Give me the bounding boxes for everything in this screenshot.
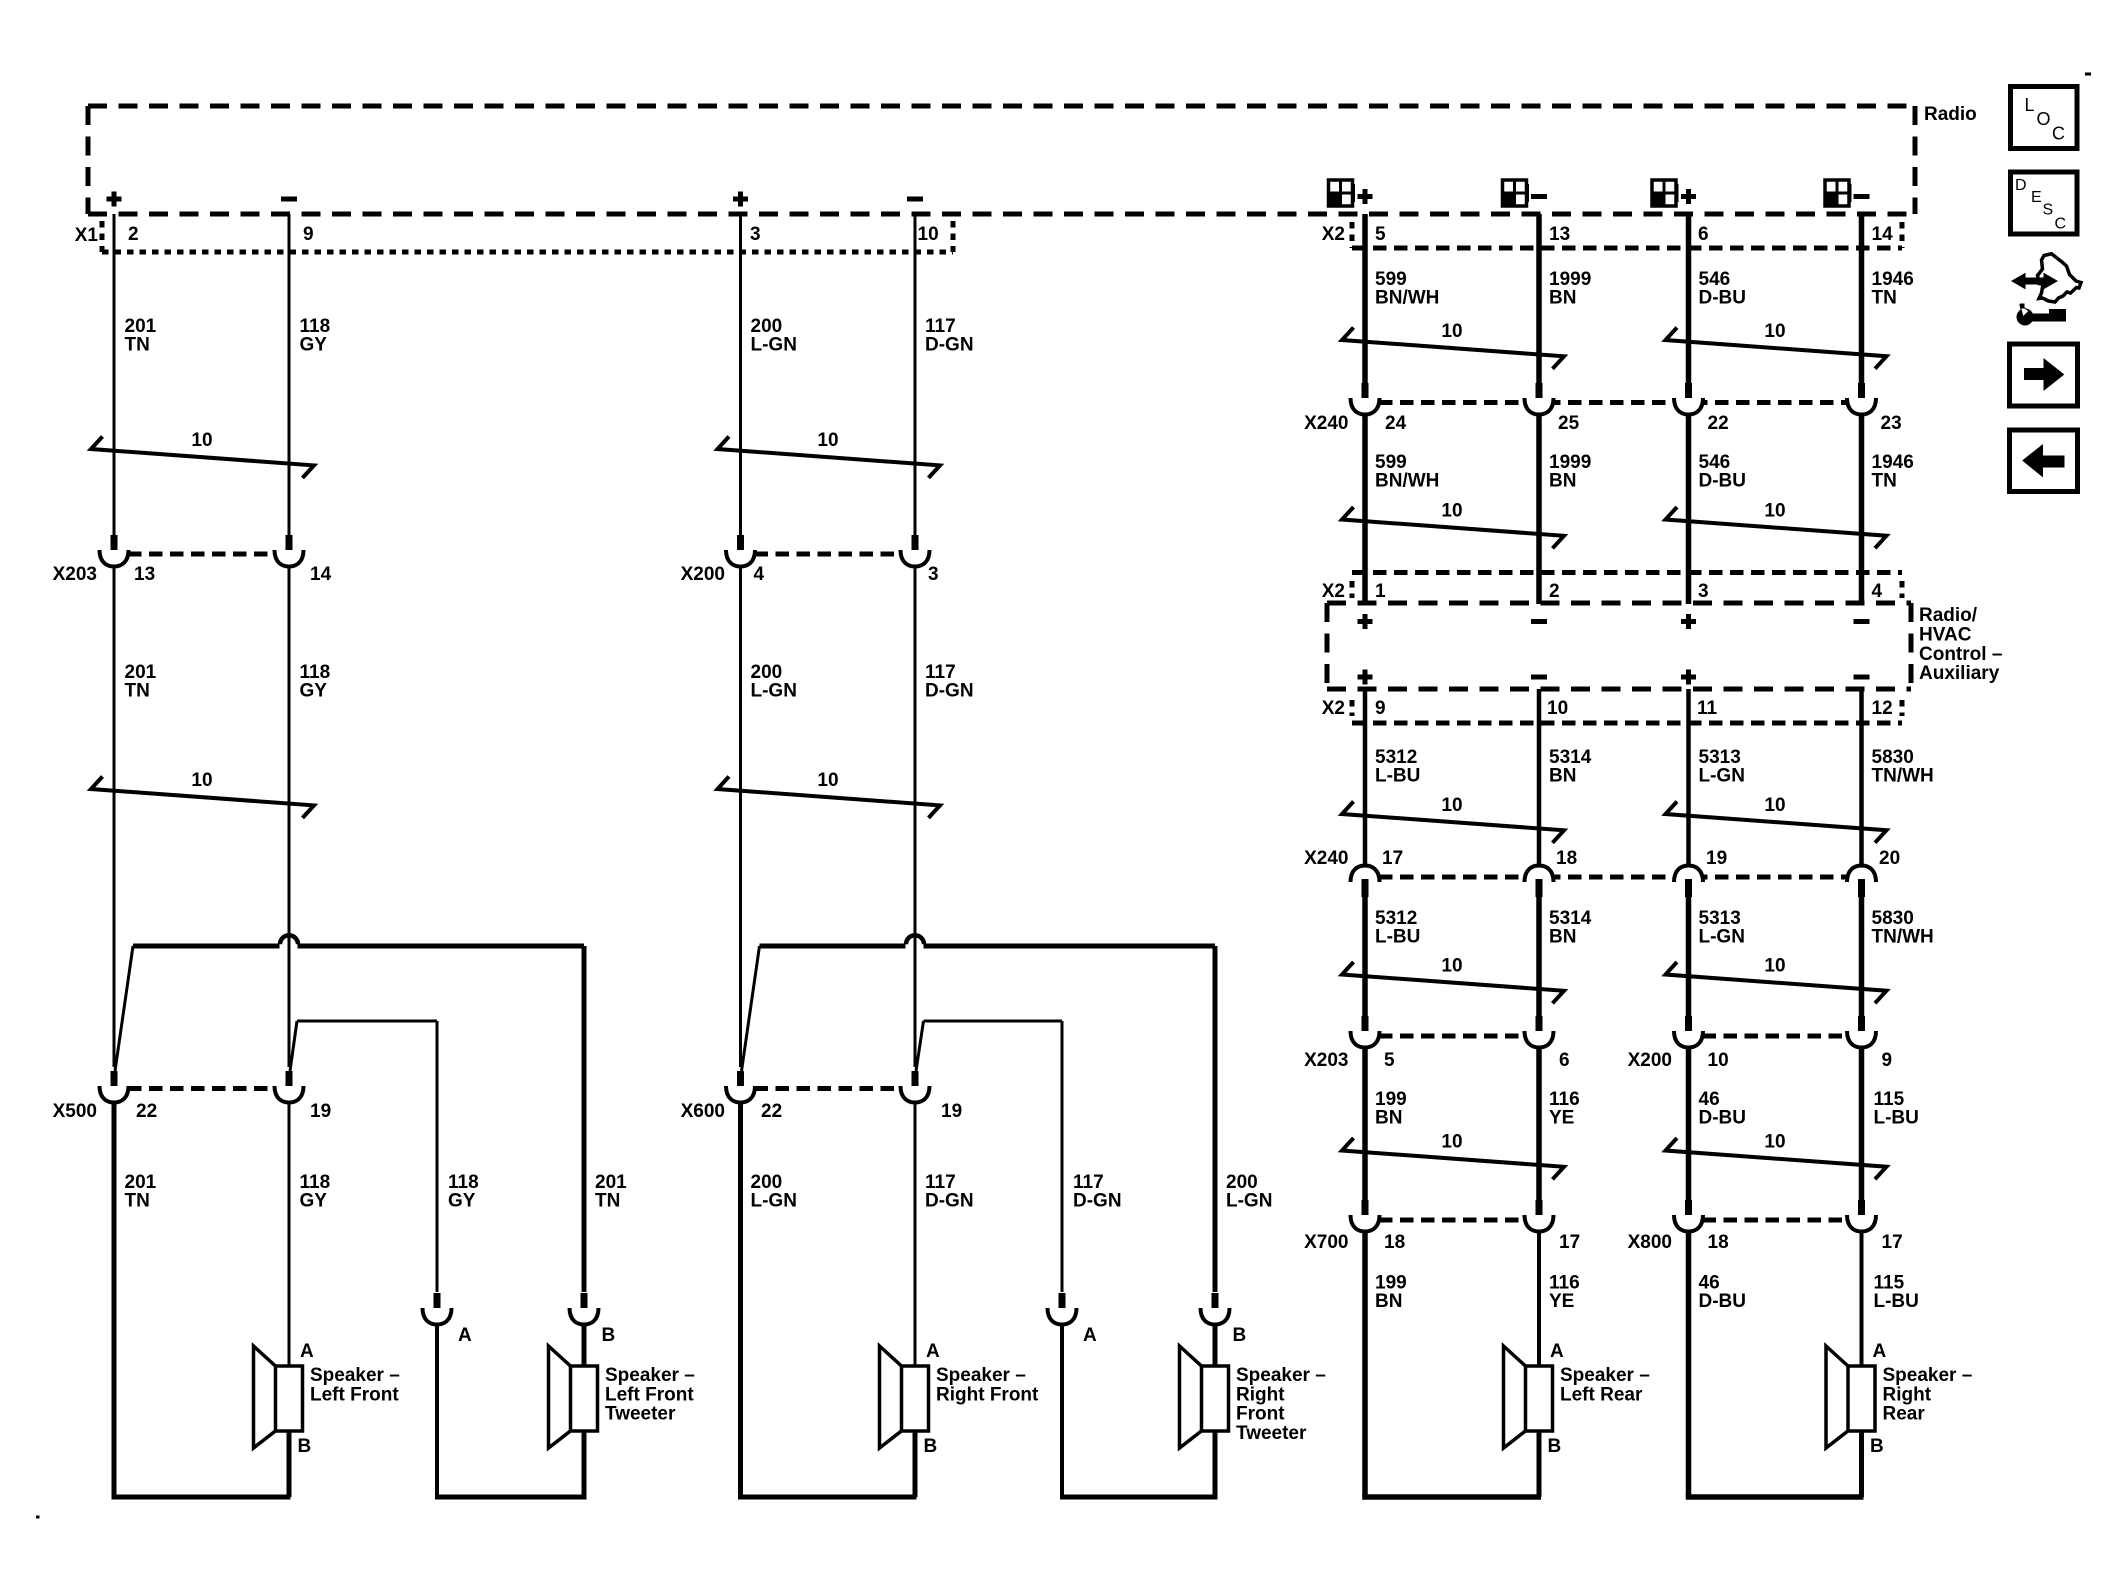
svg-text:A: A (926, 1341, 940, 1362)
svg-text:A: A (1083, 1325, 1097, 1346)
svg-text:Speaker –: Speaker – (310, 1365, 400, 1386)
svg-text:A: A (1550, 1341, 1564, 1362)
svg-text:Front: Front (1236, 1404, 1285, 1425)
connector X203 pin 13 clip (111, 535, 118, 554)
svg-text:Speaker –: Speaker – (605, 1365, 695, 1386)
twisted pair symbol right front lower (718, 777, 941, 818)
svg-text:X240: X240 (1304, 413, 1348, 434)
connector X600 pin 19 clip (912, 1071, 919, 1090)
svg-text:10: 10 (1764, 956, 1785, 977)
svg-text:18: 18 (1556, 848, 1577, 869)
svg-text:Speaker –: Speaker – (1560, 1365, 1650, 1386)
polarity - left rear (1531, 194, 1547, 199)
svg-text:L-BU: L-BU (1375, 927, 1420, 948)
svg-text:A: A (1873, 1341, 1887, 1362)
wire hop over 118 GY (280, 935, 298, 944)
svg-text:TN: TN (125, 681, 150, 702)
svg-text:B: B (924, 1436, 938, 1457)
twisted pair symbol aux left pair 2 (1342, 962, 1564, 1003)
svg-text:YE: YE (1549, 1291, 1574, 1312)
wire 46 D-BU segment 1 (1686, 1047, 1692, 1200)
speaker left rear symbol (1504, 1346, 1527, 1448)
svg-text:A: A (300, 1341, 314, 1362)
right tweeter wire A lower (1060, 1323, 1064, 1497)
rear speaker + symbol square (1652, 180, 1676, 206)
wire 199 BN segment 1 (1362, 1047, 1368, 1200)
polarity + left rear (1358, 189, 1373, 204)
connector X500 pin 22 clip (111, 1071, 118, 1090)
svg-text:GY: GY (300, 335, 328, 356)
twisted pair symbol rear right pair (1666, 328, 1887, 369)
polarity - right front (907, 197, 923, 202)
return wire right front tweeter (1060, 1495, 1218, 1500)
wire branch corner down right tweeter A (1061, 1021, 1064, 1292)
svg-text:22: 22 (136, 1101, 157, 1122)
svg-text:Right: Right (1236, 1384, 1285, 1405)
wire 46 D-BU segment 2 (1686, 1230, 1692, 1497)
connector X600 link (755, 1086, 902, 1091)
wire hop over 117 D-GN (906, 935, 924, 944)
polarity - pin2 (1531, 619, 1547, 624)
svg-text:13: 13 (134, 564, 155, 585)
twisted pair symbol aux right pair 2 (1666, 962, 1887, 1003)
return wire right rear (1686, 1494, 1864, 1500)
polarity - pin12 (1854, 675, 1870, 680)
svg-text:Right: Right (1883, 1384, 1932, 1405)
svg-text:10: 10 (1441, 501, 1462, 522)
connector X200 pin 10 clip (1685, 1016, 1692, 1035)
connector X200 link (755, 552, 902, 557)
svg-text:Radio: Radio (1924, 104, 1977, 125)
speaker right front symbol (880, 1346, 903, 1448)
svg-text:5: 5 (1384, 1050, 1395, 1071)
svg-text:10: 10 (1764, 1132, 1785, 1153)
svg-text:18: 18 (1384, 1232, 1405, 1253)
wire 1946 TN segment 1 (1859, 214, 1865, 383)
splice leg to X500 pin 19 (290, 1021, 297, 1071)
twisted pair symbol rear left pair (1342, 328, 1564, 369)
connector X2 aux dotted outline (1352, 721, 1902, 726)
svg-text:TN: TN (125, 1191, 150, 1212)
wire branch to right tweeter B (760, 944, 906, 949)
svg-text:B: B (602, 1325, 616, 1346)
svg-text:B: B (1548, 1436, 1562, 1457)
svg-text:E: E (2031, 189, 2042, 206)
connector X700 pin 18 clip (1362, 1200, 1369, 1219)
svg-text:22: 22 (761, 1101, 782, 1122)
twisted pair symbol left front lower (91, 777, 314, 818)
svg-text:Speaker –: Speaker – (1236, 1365, 1326, 1386)
svg-text:10: 10 (1441, 956, 1462, 977)
svg-text:10: 10 (1708, 1050, 1729, 1071)
connector X240 pin 19 clip (1674, 866, 1703, 883)
wire 5830 TN/WH segment 2 (1859, 896, 1865, 1017)
left tweeter wire B lower (582, 1323, 587, 1366)
svg-text:HVAC: HVAC (1919, 624, 1972, 645)
connector X2 lower dotted outline (1352, 570, 1902, 575)
wire 200 L-GN lower segment (738, 1102, 743, 1497)
svg-text:BN: BN (1549, 927, 1576, 948)
svg-text:Left Front: Left Front (310, 1384, 399, 1405)
svg-text:TN/WH: TN/WH (1872, 927, 1934, 948)
svg-text:19: 19 (941, 1101, 962, 1122)
svg-text:D-BU: D-BU (1699, 471, 1747, 492)
svg-text:X500: X500 (53, 1101, 97, 1122)
svg-text:D-GN: D-GN (925, 1191, 974, 1212)
svg-text:BN: BN (1375, 1108, 1402, 1129)
svg-text:D-GN: D-GN (925, 681, 974, 702)
wire 201 TN lower segment (112, 1102, 117, 1497)
connector X500 link (128, 1086, 275, 1091)
connector X200 pin 4 clip (737, 535, 744, 554)
svg-text:D-GN: D-GN (925, 335, 974, 356)
svg-text:L-BU: L-BU (1375, 766, 1420, 787)
right tweeter terminal B clip (1212, 1293, 1219, 1312)
wire 115 L-BU segment 1 (1859, 1047, 1865, 1200)
wire 199 BN segment 2 (1362, 1230, 1368, 1497)
polarity + left front (107, 192, 122, 207)
connector X240 pin 22 clip (1685, 383, 1692, 402)
twisted pair symbol rear speakers right (1666, 1138, 1887, 1179)
wire 5314 BN segment 1 (1537, 689, 1542, 866)
svg-text:BN/WH: BN/WH (1375, 288, 1439, 309)
svg-text:TN: TN (595, 1191, 620, 1212)
Radio/HVAC Control Auxiliary dashed box (1327, 601, 1911, 606)
speaker left rear wire below (1537, 1431, 1542, 1497)
twisted pair symbol rear left pair 2 (1342, 507, 1564, 548)
connector X240 link lower (1379, 875, 1848, 880)
wire 118 GY mid segment (288, 566, 291, 1067)
twisted pair symbol aux right pair (1666, 802, 1887, 843)
svg-text:Tweeter: Tweeter (605, 1404, 676, 1425)
connector X240 link upper (1379, 400, 1848, 405)
svg-text:11: 11 (1697, 698, 1718, 719)
polarity - right rear (1854, 194, 1870, 199)
svg-text:10: 10 (191, 770, 212, 791)
svg-text:X240: X240 (1304, 848, 1348, 869)
svg-text:18: 18 (1708, 1232, 1729, 1253)
svg-text:C: C (2055, 216, 2067, 233)
wire 118 GY upper segment (288, 214, 291, 535)
stray mark top right (2085, 73, 2091, 76)
svg-text:17: 17 (1559, 1232, 1580, 1253)
svg-text:19: 19 (310, 1101, 331, 1122)
return wire left rear (1362, 1494, 1541, 1500)
svg-text:10: 10 (1764, 321, 1785, 342)
wire 546 D-BU segment 2 (1686, 414, 1692, 604)
svg-text:22: 22 (1708, 413, 1729, 434)
wire 546 D-BU segment 1 (1686, 214, 1692, 383)
svg-text:L-GN: L-GN (1699, 766, 1745, 787)
connector X203 pin 5 clip (1362, 1016, 1369, 1035)
svg-text:GY: GY (300, 681, 328, 702)
svg-text:12: 12 (1872, 698, 1893, 719)
svg-text:X200: X200 (1628, 1050, 1672, 1071)
svg-text:Rear: Rear (1883, 1404, 1926, 1425)
svg-text:2: 2 (128, 224, 139, 245)
connector X240 pin 17 clip (1351, 866, 1380, 883)
connector X800 pin 18 clip (1685, 1200, 1692, 1219)
svg-text:D-GN: D-GN (1073, 1191, 1122, 1212)
svg-text:Left Rear: Left Rear (1560, 1384, 1643, 1405)
wire 1999 BN segment 2 (1536, 414, 1542, 604)
connector X203 pin 6 clip (1536, 1016, 1543, 1035)
speaker right front wire below (913, 1431, 918, 1497)
svg-text:2: 2 (1549, 581, 1560, 602)
svg-text:Right Front: Right Front (936, 1384, 1039, 1405)
wire 201 TN upper segment (113, 214, 116, 535)
svg-text:4: 4 (1872, 581, 1883, 602)
connector X200 pin 3 clip (912, 535, 919, 554)
svg-text:C: C (2052, 124, 2065, 144)
svg-text:Speaker –: Speaker – (1883, 1365, 1973, 1386)
connector X1 dotted outline (102, 250, 953, 255)
svg-text:L-GN: L-GN (751, 681, 797, 702)
svg-text:24: 24 (1385, 413, 1407, 434)
speaker right front tweeter symbol (1180, 1346, 1203, 1448)
connector X200 rear link (1703, 1034, 1848, 1039)
wire 5312 L-BU segment 2 (1362, 896, 1368, 1017)
svg-text:17: 17 (1382, 848, 1403, 869)
wire 200 L-GN mid segment (739, 566, 742, 1067)
svg-text:BN: BN (1549, 766, 1576, 787)
svg-text:14: 14 (1872, 224, 1894, 245)
svg-text:3: 3 (750, 224, 761, 245)
svg-text:X203: X203 (1304, 1050, 1348, 1071)
wire 201 TN mid segment (113, 566, 116, 1067)
svg-text:X1: X1 (75, 225, 99, 246)
svg-text:1: 1 (1375, 581, 1386, 602)
svg-text:TN/WH: TN/WH (1872, 766, 1934, 787)
wire 200 L-GN upper segment (739, 214, 742, 535)
svg-text:X2: X2 (1322, 698, 1345, 719)
wire 118 GY lower segment (288, 1102, 291, 1366)
svg-text:Left Front: Left Front (605, 1384, 694, 1405)
svg-text:X700: X700 (1304, 1232, 1348, 1253)
connector X240 pin 20 clip (1847, 866, 1876, 883)
twisted pair symbol aux left pair (1342, 802, 1564, 843)
polarity + pin9 (1358, 670, 1373, 685)
svg-text:9: 9 (1375, 698, 1386, 719)
Radio component dashed box (88, 104, 1915, 109)
svg-text:B: B (298, 1436, 312, 1457)
svg-text:10: 10 (1441, 321, 1462, 342)
speaker left front wire below (287, 1431, 292, 1497)
connector X200 pin 9 clip (1858, 1016, 1865, 1035)
wire branch to left tweeter B (133, 944, 280, 949)
wire 117 D-GN upper segment (914, 214, 917, 535)
connector X800 pin 17 clip (1858, 1200, 1865, 1219)
twisted pair symbol right front upper (718, 437, 941, 478)
return wire left front (112, 1495, 291, 1500)
svg-text:10: 10 (1547, 698, 1568, 719)
wire 5313 L-GN segment 2 (1686, 896, 1692, 1017)
svg-text:10: 10 (1764, 795, 1785, 816)
wire 599 BN/WH segment 1 (1362, 214, 1368, 383)
connector X700 pin 17 clip (1536, 1200, 1543, 1219)
polarity + pin11 (1681, 670, 1696, 685)
svg-text:4: 4 (754, 564, 765, 585)
svg-text:L-GN: L-GN (1699, 927, 1745, 948)
wire 5312 L-BU segment 1 (1363, 689, 1368, 866)
polarity + pin1 (1358, 614, 1373, 629)
polarity - pin4 (1854, 619, 1870, 624)
svg-text:L-GN: L-GN (1226, 1191, 1272, 1212)
polarity - pin10 (1531, 675, 1547, 680)
right tweeter wire B lower (1213, 1323, 1218, 1366)
svg-text:X203: X203 (53, 564, 97, 585)
rear speaker - symbol square (1825, 180, 1849, 206)
svg-text:19: 19 (1706, 848, 1727, 869)
svg-text:D-BU: D-BU (1699, 1291, 1747, 1312)
wire 116 YE segment 2 (1537, 1230, 1541, 1366)
svg-text:20: 20 (1879, 848, 1900, 869)
svg-text:9: 9 (1882, 1050, 1893, 1071)
speaker left front tweeter wire below (582, 1431, 587, 1497)
svg-text:X600: X600 (681, 1101, 725, 1122)
stray mark bottom left (36, 1516, 40, 1519)
svg-text:X800: X800 (1628, 1232, 1672, 1253)
polarity - left front (281, 197, 297, 202)
svg-text:GY: GY (300, 1191, 328, 1212)
connector X240 pin 23 clip (1858, 383, 1865, 402)
diagnostic jump icon (2038, 254, 2082, 302)
connector X700 link (1379, 1218, 1525, 1223)
svg-text:10: 10 (817, 430, 838, 451)
svg-text:10: 10 (918, 224, 939, 245)
svg-text:BN: BN (1375, 1291, 1402, 1312)
svg-text:L-GN: L-GN (751, 1191, 797, 1212)
svg-text:5: 5 (1375, 224, 1386, 245)
svg-text:L-BU: L-BU (1874, 1108, 1919, 1129)
speaker left front symbol (254, 1346, 277, 1448)
polarity + right front (733, 192, 748, 207)
svg-text:B: B (1233, 1325, 1247, 1346)
left tweeter terminal B clip (581, 1293, 588, 1312)
svg-text:L-BU: L-BU (1874, 1291, 1919, 1312)
twisted pair symbol rear speakers left (1342, 1138, 1564, 1179)
svg-text:10: 10 (1441, 1132, 1462, 1153)
svg-text:Control –: Control – (1919, 644, 2002, 665)
forward arrow icon box (2010, 344, 2078, 406)
speaker right rear symbol (1826, 1346, 1849, 1448)
twisted pair symbol rear right pair 2 (1666, 507, 1887, 548)
rear speaker + symbol square (1329, 180, 1353, 206)
rear speaker - symbol square (1503, 180, 1527, 206)
svg-text:10: 10 (817, 770, 838, 791)
svg-text:Speaker –: Speaker – (936, 1365, 1026, 1386)
connector X240 pin 25 clip (1536, 383, 1543, 402)
speaker left front tweeter symbol (549, 1346, 572, 1448)
left tweeter terminal A clip (434, 1293, 441, 1312)
connector X600 pin 22 clip (737, 1071, 744, 1090)
svg-text:TN: TN (125, 335, 150, 356)
svg-text:D-BU: D-BU (1699, 288, 1747, 309)
wire branch corner down right tweeter B (1213, 946, 1218, 1292)
svg-text:X2: X2 (1322, 581, 1345, 602)
twisted pair symbol left front upper (91, 437, 314, 478)
LOC icon box (2011, 87, 2078, 149)
svg-text:X200: X200 (681, 564, 725, 585)
svg-text:X2: X2 (1322, 224, 1345, 245)
svg-text:L: L (2025, 95, 2035, 115)
left tweeter wire A lower (435, 1323, 439, 1497)
svg-text:13: 13 (1549, 224, 1570, 245)
wire 116 YE segment 1 (1536, 1047, 1542, 1200)
svg-text:6: 6 (1559, 1050, 1570, 1071)
svg-text:B: B (1870, 1436, 1884, 1457)
svg-text:Radio/: Radio/ (1919, 605, 1978, 626)
speaker right rear wire below (1859, 1431, 1864, 1497)
connector X240 pin 24 clip (1362, 383, 1369, 402)
svg-text:YE: YE (1549, 1108, 1574, 1129)
svg-text:23: 23 (1881, 413, 1902, 434)
speaker right front tweeter wire below (1213, 1431, 1218, 1497)
splice leg to X600 pin 22 (742, 946, 760, 1071)
wire 1946 TN segment 2 (1859, 414, 1865, 604)
svg-text:BN: BN (1549, 471, 1576, 492)
svg-text:TN: TN (1872, 288, 1897, 309)
wire 117 D-GN mid segment (914, 566, 917, 1067)
return wire left front tweeter (435, 1495, 587, 1500)
svg-text:D: D (2015, 177, 2027, 194)
connector X203 rear link (1379, 1034, 1525, 1039)
svg-text:25: 25 (1558, 413, 1580, 434)
connector X2 radio dotted outline (1352, 246, 1902, 251)
svg-text:BN: BN (1549, 288, 1576, 309)
wire branch corner down left tweeter B (582, 946, 587, 1292)
svg-text:L-GN: L-GN (751, 335, 797, 356)
wire 5830 TN/WH segment 1 (1859, 689, 1864, 866)
svg-text:BN/WH: BN/WH (1375, 471, 1439, 492)
polarity + pin3 (1681, 614, 1696, 629)
svg-text:3: 3 (928, 564, 939, 585)
connector X500 pin 19 clip (286, 1071, 293, 1090)
polarity + right rear (1681, 189, 1696, 204)
wire 599 BN/WH segment 2 (1362, 414, 1368, 604)
right tweeter terminal A clip (1059, 1293, 1066, 1312)
splice leg to X600 pin 19 (916, 1021, 924, 1071)
svg-text:6: 6 (1698, 224, 1709, 245)
connector X240 pin 18 clip (1525, 866, 1554, 883)
svg-text:O: O (2037, 109, 2051, 129)
wire 5313 L-GN segment 1 (1686, 689, 1691, 866)
svg-text:17: 17 (1882, 1232, 1903, 1253)
connector X203 pin 14 clip (286, 535, 293, 554)
svg-text:Auxiliary: Auxiliary (1919, 663, 2000, 684)
connector X203 link (128, 552, 275, 557)
svg-text:Tweeter: Tweeter (1236, 1423, 1307, 1444)
wire 1999 BN segment 1 (1536, 214, 1542, 383)
svg-text:10: 10 (1441, 795, 1462, 816)
wire 5314 BN segment 2 (1536, 896, 1542, 1017)
DESC icon box (2011, 172, 2078, 234)
back arrow icon box (2010, 430, 2078, 492)
wire 115 L-BU segment 2 (1860, 1230, 1864, 1366)
wire branch corner down left tweeter A (436, 1021, 439, 1292)
wire 117 D-GN lower segment (914, 1102, 917, 1366)
svg-text:14: 14 (310, 564, 332, 585)
svg-text:D-BU: D-BU (1699, 1108, 1747, 1129)
wire branch to right tweeter A (924, 1020, 1063, 1023)
svg-text:9: 9 (303, 224, 314, 245)
svg-text:3: 3 (1698, 581, 1709, 602)
svg-text:S: S (2043, 202, 2054, 219)
svg-text:10: 10 (191, 430, 212, 451)
return wire right front (738, 1495, 917, 1500)
svg-text:TN: TN (1872, 471, 1897, 492)
splice leg to X500 pin 22 (115, 946, 133, 1071)
